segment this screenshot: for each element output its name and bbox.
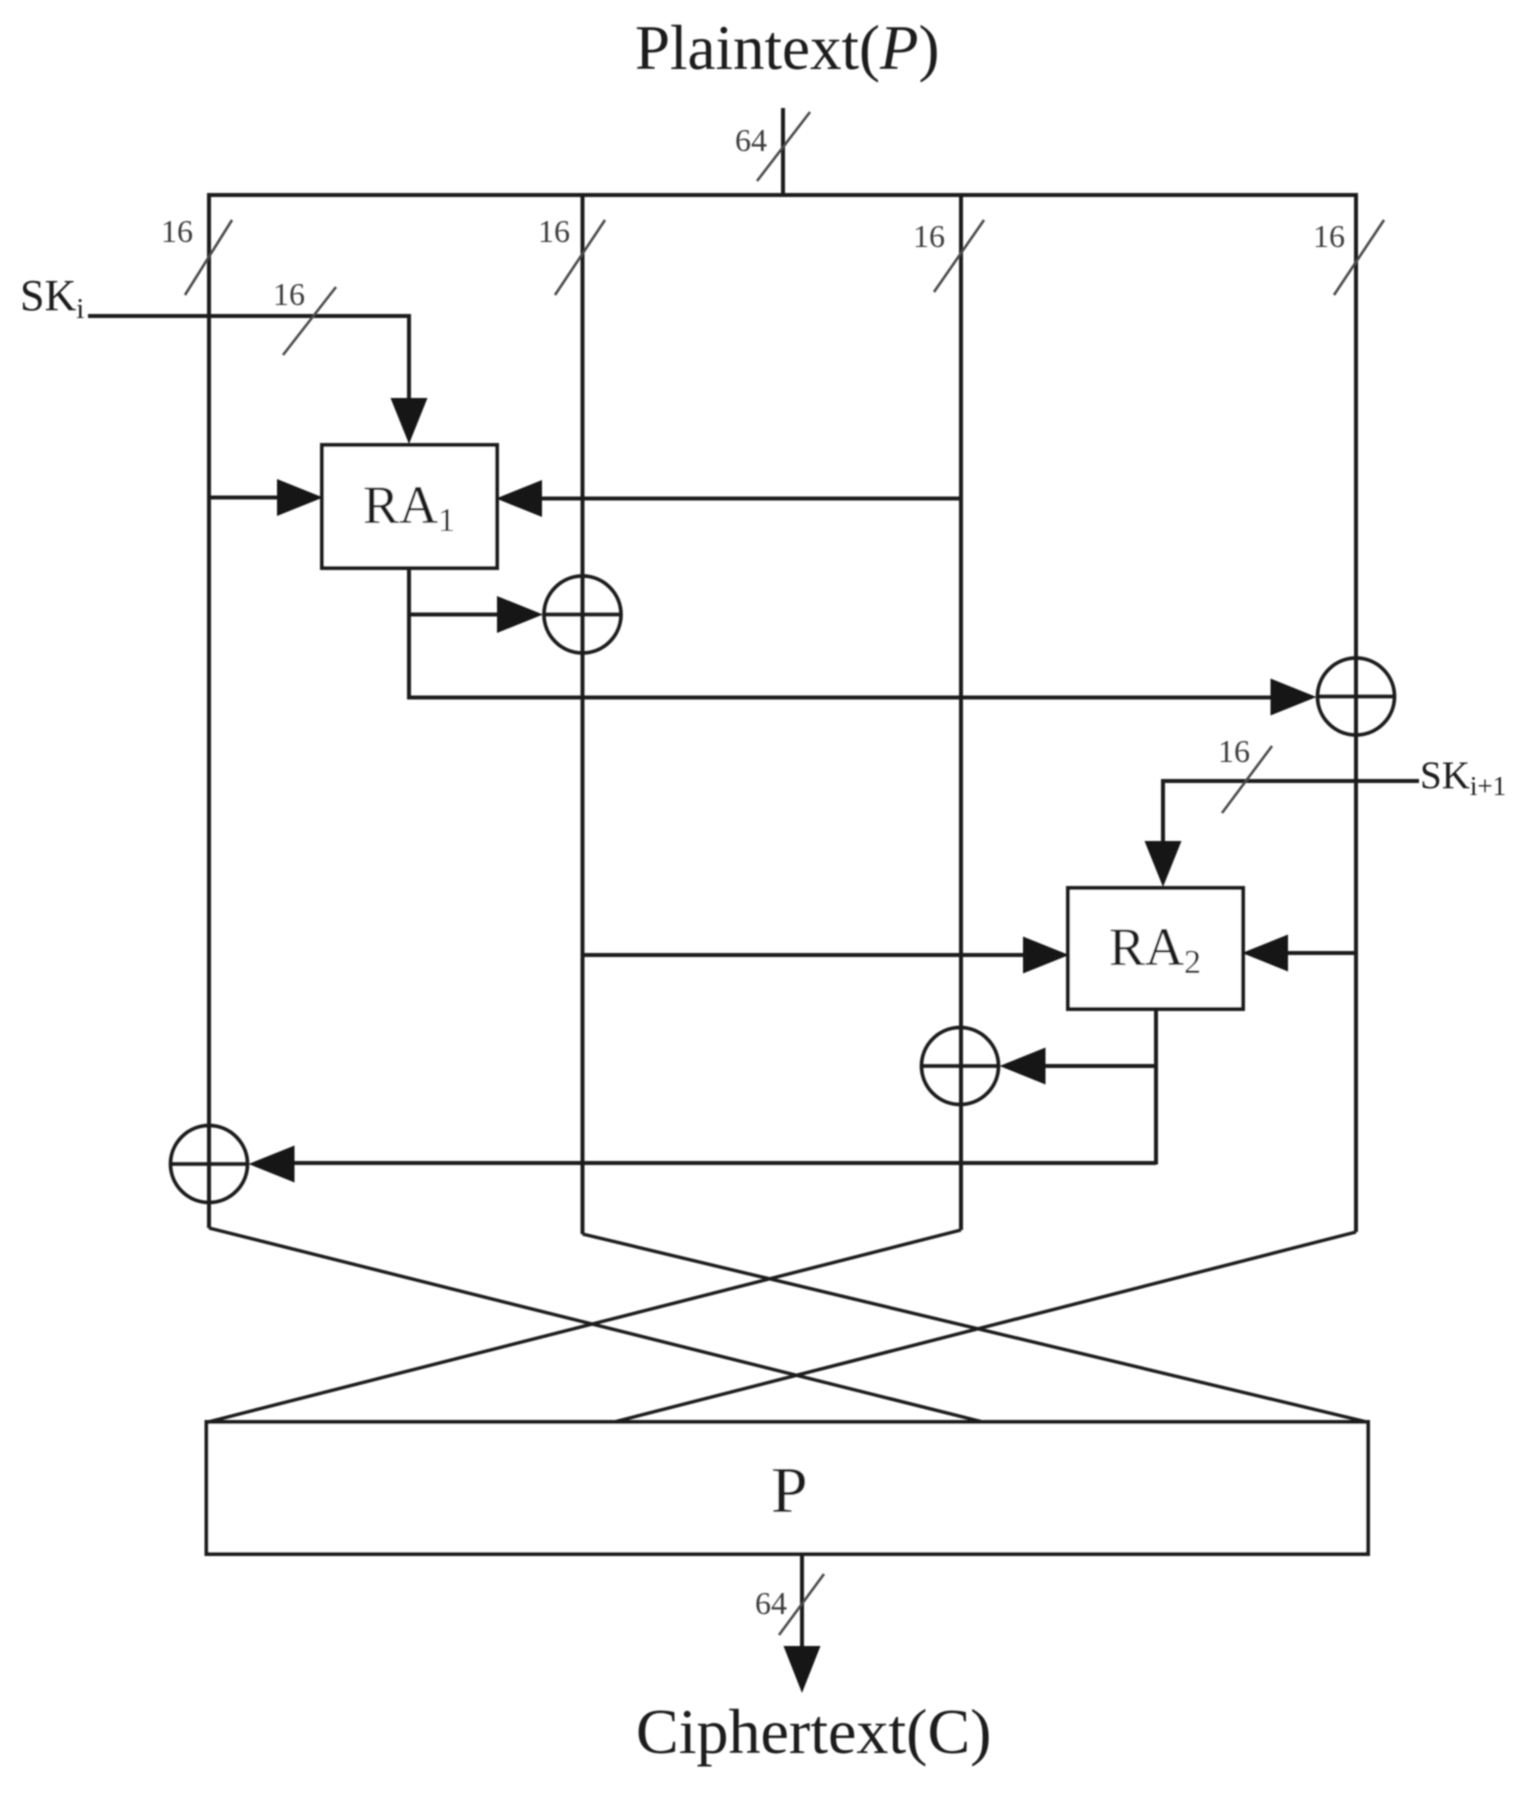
wire branch 1 vertical: [207, 193, 211, 1228]
wire RA2 to XOR4 long: [292, 1161, 1156, 1165]
wire RA1 output vertical: [407, 568, 411, 700]
xor XOR1: [544, 576, 621, 653]
arrow into RA2 left: [1023, 937, 1069, 974]
tick slash branch2 16: [555, 220, 605, 295]
tick slash bottom 64: [779, 1574, 824, 1635]
wire branch 4 vertical: [1354, 193, 1358, 1232]
wire swap diagonal 4: [614, 1232, 1356, 1422]
wire branch 2 vertical: [581, 193, 585, 1234]
svg-text:16: 16: [913, 218, 945, 254]
svg-text:16: 16: [1313, 218, 1345, 254]
arrow into RA1 right: [496, 480, 542, 517]
block P permutation: [207, 1422, 1369, 1554]
svg-text:16: 16: [1218, 733, 1250, 769]
wire RA2 output vertical: [1154, 1009, 1158, 1165]
arrow into XOR3: [1000, 1048, 1046, 1085]
tick slash top 64: [757, 112, 810, 181]
svg-text:SKi: SKi: [20, 271, 84, 325]
wire RA1 to XOR1: [409, 613, 500, 617]
wire swap diagonal 3: [208, 1230, 961, 1422]
wire RA2 to XOR3: [1043, 1064, 1156, 1068]
svg-text:64: 64: [735, 122, 767, 158]
wire SKi+1 input: [1163, 781, 1419, 845]
arrow into RA1 left: [277, 479, 323, 516]
arrow bottom output: [784, 1646, 821, 1693]
arrow into XOR4: [249, 1146, 295, 1183]
arrow into XOR1: [497, 596, 543, 633]
svg-text:Ciphertext(C): Ciphertext(C): [636, 1696, 991, 1767]
wire RA2 left input: [583, 953, 1025, 957]
tick slash branch1 16: [185, 220, 232, 295]
xor XOR2: [1318, 658, 1395, 735]
wire top bus 64-bit: [781, 108, 785, 197]
svg-text:16: 16: [538, 213, 570, 249]
block RA2: [1068, 888, 1243, 1009]
svg-text:16: 16: [161, 213, 193, 249]
tick slash SKi+1 16: [1222, 746, 1272, 813]
tick slash branch3 16: [934, 220, 984, 292]
wire RA2 right input: [1287, 951, 1356, 955]
svg-text:Plaintext(P): Plaintext(P): [635, 13, 939, 83]
arrow SKi into RA1 top: [391, 398, 428, 444]
arrow SKi+1 into RA2 top: [1145, 841, 1182, 887]
wire bottom bus 64-bit: [800, 1554, 804, 1650]
svg-text:64: 64: [755, 1585, 787, 1621]
svg-text:16: 16: [273, 276, 305, 312]
wire SKi input: [88, 316, 409, 400]
xor XOR4: [171, 1126, 248, 1203]
xor XOR3: [922, 1028, 999, 1105]
svg-text:P: P: [771, 1454, 808, 1527]
wire branch 3 vertical: [959, 193, 963, 1230]
tick slash SKi 16: [283, 287, 336, 355]
wire swap diagonal 1: [209, 1228, 983, 1422]
arrow into XOR2: [1271, 679, 1317, 716]
wire RA1 right input: [540, 497, 961, 501]
wire RA1 left input: [209, 496, 280, 500]
tick slash branch4 16: [1334, 220, 1384, 295]
block RA1: [322, 445, 497, 568]
wire top horizontal distribution: [209, 193, 1356, 197]
wire RA1 to XOR2 long: [409, 696, 1273, 700]
wire swap diagonal 2: [583, 1234, 1368, 1422]
arrow into RA2 right: [1242, 935, 1288, 972]
